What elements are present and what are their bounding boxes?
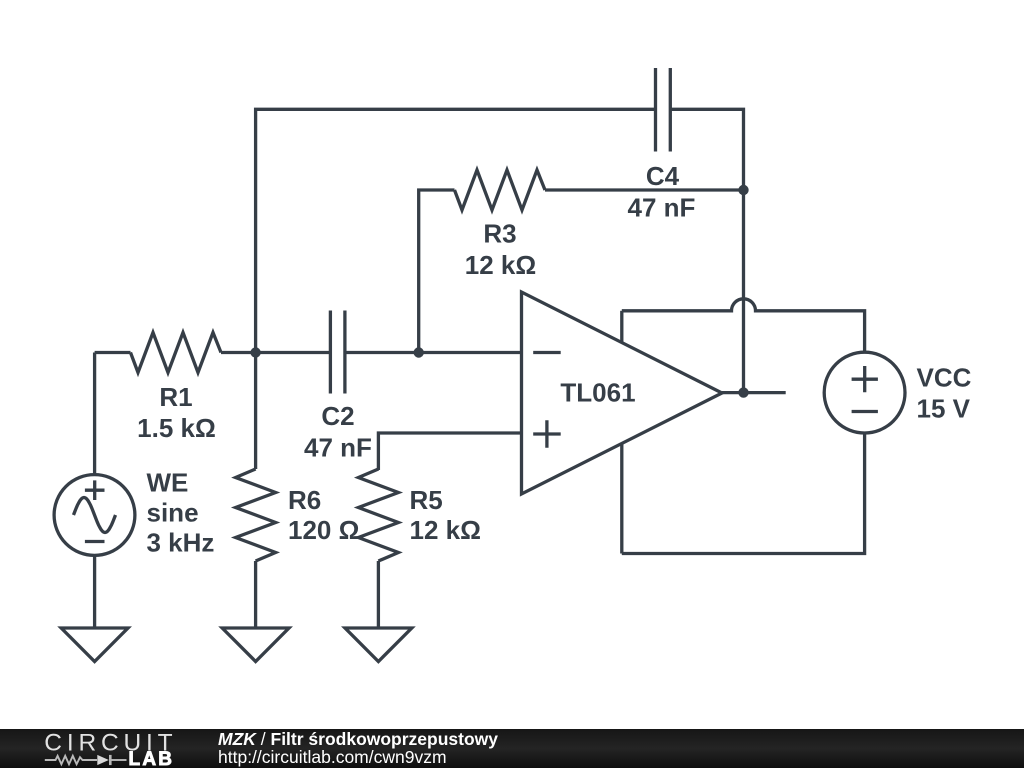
- label C4 value: [628, 161, 696, 223]
- VCC minus sign: [852, 410, 878, 413]
- svg-text:C2: C2: [321, 401, 354, 431]
- label R5 value: [410, 485, 481, 545]
- label C2 value: [304, 401, 372, 463]
- wire op-amp V- pin to power loop bottom: [620, 443, 623, 553]
- voltage source WE circle: [54, 475, 135, 556]
- svg-text:R5: R5: [410, 485, 443, 515]
- footer title MZK / Filtr srodkowoprzepustowy: [218, 729, 498, 749]
- ground under R5: [345, 628, 412, 662]
- op-amp inverting input minus sign: [533, 351, 561, 354]
- svg-text:R6: R6: [288, 485, 321, 515]
- svg-text:VCC: VCC: [917, 362, 972, 392]
- label op-amp TL061: [560, 378, 635, 408]
- node C junction dot: [414, 347, 424, 357]
- resistor R5: [358, 469, 398, 561]
- WE plus sign: [85, 480, 105, 500]
- svg-text:LAB: LAB: [129, 749, 173, 768]
- wire power loop bottom to VCC minus: [622, 433, 865, 553]
- svg-text:47 nF: 47 nF: [304, 433, 372, 463]
- wire R5 bottom to ground: [377, 561, 380, 628]
- resistor R6: [236, 469, 276, 561]
- svg-text:sine: sine: [147, 498, 199, 528]
- wire node C up to R3: [419, 190, 455, 353]
- wire C2 right plate to op-amp inverting input: [345, 351, 522, 354]
- svg-text:120 Ω: 120 Ω: [288, 515, 359, 545]
- capacitor C4: [656, 68, 671, 152]
- resistor R3: [455, 170, 546, 210]
- resistor R1: [131, 333, 222, 373]
- CircuitLab logo wordmark CIRCUIT: [44, 730, 172, 757]
- svg-text:C4: C4: [646, 161, 680, 191]
- wire feedback vertical node B to output node: [742, 190, 745, 393]
- output node junction dot: [738, 387, 748, 397]
- ground under R6: [222, 628, 289, 662]
- node A junction dot: [250, 347, 260, 357]
- voltage source VCC circle: [824, 352, 905, 433]
- wire R1 to node A: [221, 351, 256, 354]
- label VCC value: [917, 362, 972, 423]
- wire top-left vertical from node A up and across to C4 left plate: [256, 109, 656, 352]
- label R6 value: [288, 485, 359, 545]
- svg-text:12 kΩ: 12 kΩ: [465, 250, 536, 280]
- svg-text:1.5 kΩ: 1.5 kΩ: [137, 413, 216, 443]
- CircuitLab logo wordmark LAB: [129, 749, 173, 768]
- label WE source: [147, 468, 215, 558]
- wire R3 to node B: [545, 188, 744, 191]
- ground under WE: [61, 628, 128, 662]
- wire WE bottom to ground: [93, 556, 96, 629]
- op-amp U1 triangle: [522, 292, 723, 494]
- svg-text:3 kHz: 3 kHz: [147, 528, 215, 558]
- node B junction dot: [738, 185, 748, 195]
- label R3 value: [465, 219, 536, 281]
- svg-text:MZK / Filtr środkowoprzepustow: MZK / Filtr środkowoprzepustowy: [218, 729, 498, 749]
- svg-text:R3: R3: [483, 219, 516, 249]
- svg-text:15 V: 15 V: [917, 394, 971, 424]
- WE sine symbol: [74, 498, 116, 533]
- op-amp non-inverting input plus sign: [533, 420, 561, 448]
- svg-text:WE: WE: [147, 468, 189, 498]
- wire node A down to R6 top: [254, 353, 257, 470]
- svg-text:TL061: TL061: [560, 378, 635, 408]
- footer url: [218, 747, 447, 767]
- svg-text:47 nF: 47 nF: [628, 193, 696, 223]
- wire WE source top: [93, 353, 96, 475]
- wire R6 bottom to ground: [254, 561, 257, 628]
- wire WE top to R1: [95, 351, 131, 354]
- wire non-inverting input to R5 top: [378, 433, 521, 470]
- wire C4 right plate to corner down to node B: [670, 109, 743, 190]
- wire power loop top with hop over feedback: [622, 299, 865, 352]
- svg-text:http://circuitlab.com/cwn9vzm: http://circuitlab.com/cwn9vzm: [218, 747, 447, 767]
- svg-text:12 kΩ: 12 kΩ: [410, 515, 481, 545]
- VCC plus sign: [852, 366, 878, 392]
- wire op-amp V+ pin to power loop top: [620, 311, 623, 343]
- svg-text:R1: R1: [159, 382, 192, 412]
- wire op-amp output stub: [722, 391, 786, 394]
- footer bar: [0, 729, 1024, 768]
- CircuitLab logo resistor-diode symbol: [45, 755, 127, 765]
- label R1 value: [137, 382, 216, 443]
- WE minus sign: [85, 540, 105, 543]
- capacitor C2: [330, 311, 345, 394]
- wire node A to C2 left plate: [256, 351, 331, 354]
